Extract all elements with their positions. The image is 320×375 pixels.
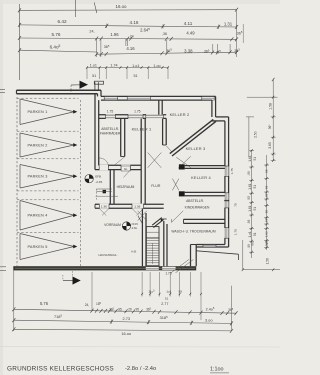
svg-text:4.49: 4.49 [186,30,195,35]
svg-text:88: 88 [251,242,255,246]
svg-text:KELLER 1: KELLER 1 [132,127,152,132]
svg-text:FAHRRÄDER: FAHRRÄDER [100,131,121,135]
svg-text:GRUNDRISS KELLERGESCHOSS: GRUNDRISS KELLERGESCHOSS [7,365,114,372]
svg-text:51: 51 [253,232,257,236]
svg-text:VORRAUM: VORRAUM [104,223,121,227]
svg-text:,36: ,36 [162,32,167,36]
svg-text:24,: 24, [89,29,94,33]
svg-text:FLUR: FLUR [151,184,161,188]
svg-text:6.42: 6.42 [57,19,67,24]
svg-text:51: 51 [165,296,169,300]
svg-text:99: 99 [178,290,182,294]
svg-text:1:1oo: 1:1oo [210,367,224,373]
svg-text:58: 58 [264,210,268,214]
svg-text:51: 51 [133,74,137,78]
svg-text:51: 51 [253,207,257,211]
svg-text:.99: .99 [247,219,251,224]
svg-text:1.61: 1.61 [248,183,252,189]
svg-text:KINDERWAGEN: KINDERWAGEN [185,205,210,209]
svg-text:4.16: 4.16 [126,46,135,51]
svg-text:ABSTELLR.: ABSTELLR. [101,127,119,131]
svg-text:.99: .99 [247,171,251,176]
svg-text:5.76: 5.76 [52,32,61,37]
svg-text:24,: 24, [85,303,90,307]
svg-text:58: 58 [264,169,268,173]
svg-text:95: 95 [247,196,251,200]
svg-text:1.61: 1.61 [248,155,252,161]
svg-text:-2.8o / -2.4o: -2.8o / -2.4o [125,366,156,372]
svg-text:1.75: 1.75 [134,110,141,114]
svg-text:KELLER 4: KELLER 4 [191,175,211,180]
svg-text:16.oo: 16.oo [116,4,128,9]
svg-text:WASCH- U. TROCKENRAUM: WASCH- U. TROCKENRAUM [171,229,215,233]
svg-text:H.B.: H.B. [131,249,136,253]
svg-text:58: 58 [264,185,268,189]
svg-text:3.65: 3.65 [268,142,272,149]
svg-text:EFB: EFB [95,174,101,178]
svg-text:1.oo: 1.oo [153,64,160,68]
svg-text:4.16: 4.16 [130,20,139,25]
svg-text:-2.45: -2.45 [95,180,102,184]
svg-text:95: 95 [264,193,268,197]
svg-text:3.oo: 3.oo [205,318,213,323]
svg-text:1.75: 1.75 [107,110,114,114]
svg-text:4.11: 4.11 [184,21,193,26]
svg-text:1.75: 1.75 [230,168,234,174]
svg-text:51: 51 [253,185,257,189]
svg-text:HEIZRAUM: HEIZRAUM [117,185,135,189]
svg-text:1.36: 1.36 [134,205,140,209]
svg-text:1.61: 1.61 [248,205,252,211]
svg-text:1.58: 1.58 [269,103,273,110]
svg-text:1o1: 1o1 [166,290,171,294]
svg-text:±0.15: ±0.15 [131,222,138,226]
svg-text:58: 58 [264,218,268,222]
svg-text:HAUSANSCHL.: HAUSANSCHL. [98,253,117,257]
svg-text:1.82: 1.82 [264,231,268,237]
svg-text:-2.8o: -2.8o [131,226,138,230]
svg-text:ABSTELLR.: ABSTELLR. [186,199,204,203]
svg-text:95: 95 [136,308,140,312]
svg-text:1.o1: 1.o1 [132,64,139,68]
svg-text:51: 51 [253,157,257,161]
svg-text:26: 26 [128,308,132,312]
svg-text:1.75: 1.75 [234,229,238,235]
svg-text:PARKEN 1: PARKEN 1 [27,110,47,114]
svg-text:1.58: 1.58 [266,258,270,264]
svg-text:PARKEN 3: PARKEN 3 [27,175,47,179]
svg-text:1.o1: 1.o1 [248,231,252,237]
svg-text:1.74: 1.74 [110,64,117,68]
svg-text:2.73: 2.73 [123,316,131,321]
svg-text:1.o1: 1.o1 [90,64,97,68]
svg-text:1.96: 1.96 [110,32,119,37]
svg-text:51: 51 [92,74,96,78]
svg-text:36⁵: 36⁵ [268,124,272,130]
svg-text:KELLER 3: KELLER 3 [186,146,206,151]
svg-text:95: 95 [118,308,122,312]
svg-text:PARKEN 5: PARKEN 5 [27,245,47,249]
svg-text:16.oo: 16.oo [121,331,131,336]
svg-text:5.76: 5.76 [40,301,49,306]
svg-text:2.77: 2.77 [161,302,168,306]
svg-text:3.38: 3.38 [184,48,193,53]
svg-text:1.75: 1.75 [165,272,171,276]
svg-text:9o: 9o [124,167,128,171]
svg-text:24: 24 [130,34,134,38]
svg-text:75: 75 [234,203,238,207]
svg-text:2.50: 2.50 [253,131,257,138]
svg-text:KELLER 2: KELLER 2 [170,112,190,117]
svg-text:1.31: 1.31 [224,21,233,26]
svg-text:36⁵: 36⁵ [265,239,269,244]
svg-text:PARKEN 4: PARKEN 4 [27,214,47,218]
svg-text:PARKEN 2: PARKEN 2 [27,143,47,147]
svg-text:1.36: 1.36 [101,205,107,209]
